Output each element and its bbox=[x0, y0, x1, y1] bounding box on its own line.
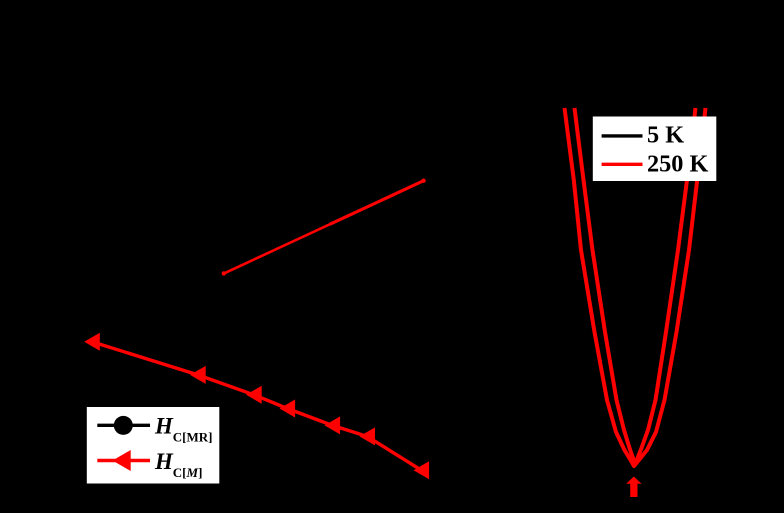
svg-text:C[M]: C[M] bbox=[173, 465, 203, 480]
svg-text:H: H bbox=[154, 414, 174, 439]
svg-text:5 K: 5 K bbox=[647, 121, 684, 148]
svg-text:C[MR]: C[MR] bbox=[173, 430, 213, 445]
svg-text:H: H bbox=[154, 449, 174, 474]
svg-text:250 K: 250 K bbox=[647, 150, 709, 177]
